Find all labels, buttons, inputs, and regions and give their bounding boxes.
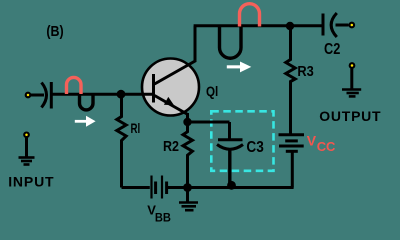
- svg-text:BB: BB: [155, 211, 171, 225]
- svg-text:V: V: [307, 133, 317, 149]
- svg-text:CC: CC: [317, 139, 336, 154]
- svg-text:(B): (B): [46, 23, 63, 40]
- svg-text:OUTPUT: OUTPUT: [319, 108, 381, 124]
- svg-text:R3: R3: [297, 63, 313, 80]
- svg-text:Rl: Rl: [131, 120, 141, 136]
- svg-text:C3: C3: [246, 139, 264, 156]
- svg-text:C2: C2: [324, 41, 340, 58]
- svg-text:R2: R2: [163, 138, 179, 155]
- svg-text:Ql: Ql: [206, 83, 218, 99]
- svg-text:INPUT: INPUT: [8, 174, 54, 190]
